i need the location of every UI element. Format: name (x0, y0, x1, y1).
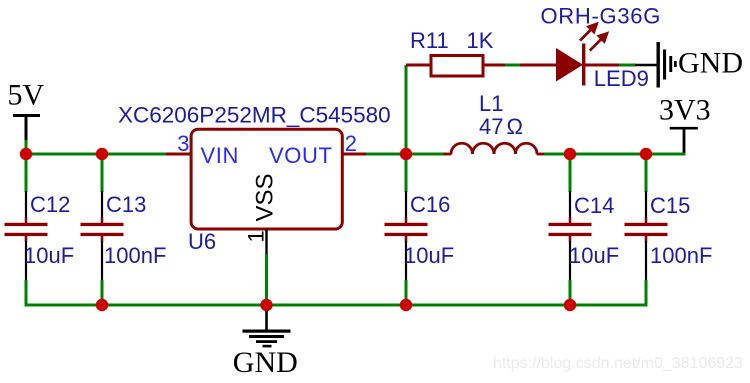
node: junction 5V/C12 (20, 148, 32, 160)
svg-text:C13: C13 (106, 192, 146, 217)
svg-text:VIN: VIN (201, 143, 239, 168)
wire: bottom rail (25, 304, 648, 307)
svg-text:R11: R11 (410, 28, 449, 53)
node: junction C13 bottom (96, 299, 108, 311)
svg-text:47: 47 (479, 114, 503, 139)
svg-text:L1: L1 (479, 91, 503, 116)
capacitor C16 (385, 154, 455, 305)
capacitor C15 (625, 154, 713, 305)
svg-text:C12: C12 (30, 192, 70, 217)
wire: VOUT to inductor (366, 153, 446, 156)
capacitor C14 (549, 154, 620, 305)
svg-text:GND: GND (233, 346, 298, 379)
wire: inductor to 3V3 corner (544, 151, 684, 154)
svg-text:3V3: 3V3 (659, 93, 711, 126)
svg-text:C15: C15 (650, 193, 690, 218)
ground GND right power port (657, 42, 744, 88)
svg-text:100nF: 100nF (104, 243, 166, 268)
label: IC title (118, 103, 391, 128)
svg-text:C16: C16 (410, 192, 450, 217)
svg-text:10uF: 10uF (24, 243, 74, 268)
wire: vertical branch to R11 (405, 65, 408, 154)
capacitor C13 (81, 154, 167, 305)
power symbol 3V3 (659, 93, 711, 152)
pin 3 number (177, 131, 189, 156)
svg-text:ORH-G36G: ORH-G36G (541, 4, 662, 29)
pin 2 number (345, 131, 357, 156)
node: junction C13 top (96, 148, 108, 160)
wire: IC pin 3 lead (166, 153, 193, 156)
svg-text:10uF: 10uF (569, 243, 619, 268)
wire: mid rail left (5V to VIN) (26, 153, 170, 156)
svg-text:VSS: VSS (252, 173, 279, 221)
wire: black lead into right GND (635, 64, 657, 66)
LED light arrow 1 (580, 22, 599, 41)
node: junction VOUT/R11/C16 (400, 148, 412, 160)
svg-text:https://blog.csdn.net/m0_38106: https://blog.csdn.net/m0_38106923 (493, 355, 743, 372)
node: junction C16 bottom (400, 299, 412, 311)
IC pin 1 lead (265, 229, 267, 255)
svg-text:2: 2 (345, 131, 357, 156)
inductor L1 (444, 91, 545, 154)
diode LED9 (520, 44, 649, 91)
node: junction C15 top (640, 148, 652, 160)
svg-text:XC6206P252MR_C545580: XC6206P252MR_C545580 (118, 103, 391, 128)
IC U6 regulator XC6206P252MR box (188, 129, 342, 254)
resistor R11 (406, 28, 506, 76)
svg-text:3: 3 (177, 131, 189, 156)
svg-text:Ω: Ω (507, 114, 523, 139)
LED light arrow 2 (590, 31, 609, 50)
svg-text:1K: 1K (467, 28, 494, 53)
ground GND bottom symbol (233, 305, 298, 379)
wire: R11 to LED9 (505, 64, 521, 67)
wire: LED to GND port (619, 64, 636, 67)
label: ORH-G36G (541, 4, 662, 29)
svg-text:GND: GND (678, 47, 743, 80)
svg-text:U6: U6 (188, 229, 216, 254)
svg-text:C14: C14 (574, 193, 614, 218)
svg-text:LED9: LED9 (594, 66, 649, 91)
node: junction C14 top (564, 148, 576, 160)
node: junction C14 bottom (564, 299, 576, 311)
svg-text:10uF: 10uF (404, 243, 454, 268)
watermark (493, 355, 743, 372)
svg-text:1: 1 (244, 230, 269, 242)
pin 1 number (244, 230, 269, 242)
wire: pin1 to bottom rail (265, 254, 268, 305)
svg-text:5V: 5V (8, 78, 45, 111)
capacitor C12 (5, 154, 75, 305)
wire: 5V drop to rail (25, 140, 28, 154)
svg-text:100nF: 100nF (650, 243, 712, 268)
node: junction GND bottom (260, 299, 272, 311)
power symbol 5V (8, 78, 45, 141)
svg-text:VOUT: VOUT (269, 143, 333, 168)
IC pin 2 lead (343, 153, 367, 156)
